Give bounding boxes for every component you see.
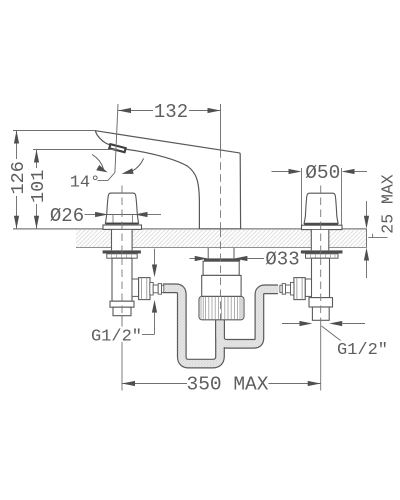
dim 132 [118,104,221,150]
right handle centerline [320,186,322,322]
left handle knob [105,193,138,223]
hose interiors [163,288,221,363]
right handle knob [304,193,338,223]
dim 101 [33,149,117,151]
spray axis line [115,104,118,173]
svg-text:14°: 14° [70,173,101,192]
left locknut [107,254,137,258]
left collar [110,301,134,307]
right valve port [305,279,311,296]
svg-text:Ø26: Ø26 [50,205,84,227]
left shank through counter [112,230,133,250]
right G1/2 callout [282,323,299,325]
center shank hole edges [207,248,209,258]
right 350 extension [320,320,322,390]
countertop bottom line [76,247,367,249]
svg-text:G1/2": G1/2" [337,341,388,360]
left washer [103,250,141,253]
14 deg leader [98,173,115,181]
svg-text:350 MAX: 350 MAX [187,374,269,396]
spout lower centerline over boxes [220,230,222,320]
right end piece [312,307,329,320]
svg-text:101: 101 [28,170,49,203]
left valve body [112,258,132,301]
right flange [302,225,343,229]
center threaded shank [199,296,244,319]
countertop hatched section [76,230,112,248]
dim 25 MAX [366,201,368,216]
center body lower [202,275,241,296]
dim diam 50 [272,171,289,173]
svg-text:132: 132 [154,101,188,123]
svg-text:25 MAX: 25 MAX [378,174,397,234]
left valve port [132,279,139,296]
svg-text:Ø50: Ø50 [305,162,340,184]
center gasket [204,258,240,261]
center body upper [203,261,239,275]
left port hex nut [139,278,150,300]
dim 350 MAX [122,383,187,385]
dim 126 [13,130,96,132]
right port hex nut [294,278,305,300]
spout body [95,131,240,229]
left 350 extension [121,316,123,391]
aerator [109,144,125,152]
left G1/2 callout [154,249,156,266]
right valve body [312,258,330,297]
swivel arc right [132,158,144,171]
dim diam 33 [190,258,196,260]
spout centerline dashed [220,150,222,228]
right collar [309,298,333,307]
right hose nipple [291,282,294,295]
right washer [301,250,343,253]
left handle centerline [121,186,123,317]
swivel arc left [92,155,103,169]
right shank through counter [311,230,329,250]
left hose nipple [150,282,153,295]
left end piece [113,307,131,316]
left flange [103,225,142,229]
svg-text:Ø33: Ø33 [265,248,299,270]
countertop top surface line [13,228,367,230]
right hose [220,289,278,344]
left hose [163,288,220,363]
diam 50 extension lines [301,168,303,225]
svg-text:G1/2": G1/2" [91,327,142,346]
svg-text:126: 126 [8,161,29,194]
right locknut [306,254,339,258]
